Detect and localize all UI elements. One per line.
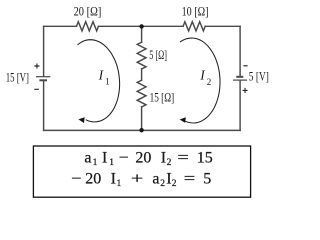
battery 15V long plate (+ terminal) (36, 76, 50, 78)
resistor 10Ω (top right) (183, 22, 205, 31)
mesh current I2 arrow (clockwise tilted elliptical arc) (180, 38, 220, 123)
resistor 5Ω (center branch upper) (137, 42, 146, 69)
mesh current I1 arrow (clockwise tilted elliptical arc) (78, 40, 120, 122)
wire right rail upper (down to battery 5V) (239, 26, 241, 76)
wire bottom rail (44, 129, 241, 131)
resistor 15Ω (center branch lower) (137, 80, 146, 107)
wire left rail upper (down to battery 15V) (43, 26, 45, 76)
wire center branch lower (15Ω to bottom node) (141, 107, 143, 130)
equation box frame (33, 146, 250, 197)
svg-text:15: 15 (197, 149, 213, 166)
svg-text:+: + (131, 170, 143, 187)
svg-text:I: I (102, 149, 107, 166)
svg-text:5 [V]: 5 [V] (249, 69, 269, 84)
svg-text:1: 1 (109, 158, 114, 168)
svg-text:20 [Ω]: 20 [Ω] (74, 4, 102, 19)
svg-text:I: I (199, 68, 206, 83)
wire center branch middle (5Ω to 15Ω) (141, 69, 143, 80)
svg-text:10 [Ω]: 10 [Ω] (182, 4, 209, 19)
svg-text:20: 20 (135, 149, 151, 166)
equation 2: −20·I1 + a2·I2 = 5 (71, 170, 211, 189)
wire left rail lower (battery 15V to bottom rail) (43, 81, 45, 130)
svg-text:I: I (166, 170, 171, 187)
wire top-right (10Ω to right rail) (205, 25, 240, 27)
battery 5V short plate (− terminal) (236, 76, 243, 78)
svg-text:−: − (71, 170, 81, 187)
svg-text:−: − (119, 149, 129, 166)
battery 5V polarity "−" (243, 65, 247, 67)
svg-text:2: 2 (207, 77, 212, 87)
svg-text:a: a (84, 149, 91, 166)
svg-text:2: 2 (160, 179, 165, 189)
battery 15V polarity "+" (34, 63, 39, 68)
svg-text:I: I (111, 170, 116, 187)
svg-text:5: 5 (203, 170, 211, 187)
svg-text:1: 1 (117, 179, 122, 189)
svg-text:1: 1 (93, 158, 98, 168)
svg-text:2: 2 (172, 179, 177, 189)
wire top-middle (20Ω to center node) (99, 25, 142, 27)
mesh current I1 arrowhead (78, 117, 84, 123)
wire top-middle-right (center node to 10Ω) (142, 25, 184, 27)
equation 1: a1·I1 − 20·I2 = 15 (84, 149, 212, 168)
svg-text:2: 2 (167, 158, 172, 168)
wire right rail lower (battery 5V to bottom rail) (239, 81, 241, 131)
node: bottom center junction (139, 128, 143, 132)
svg-text:15 [V]: 15 [V] (6, 70, 29, 85)
svg-text:I: I (161, 149, 166, 166)
svg-text:a: a (152, 170, 159, 187)
svg-text:=: = (177, 149, 188, 166)
battery 5V polarity "+" (243, 88, 248, 93)
svg-text:15 [Ω]: 15 [Ω] (150, 90, 175, 105)
mesh current I2 arrowhead (180, 117, 186, 123)
svg-text:I: I (98, 68, 105, 83)
battery 5V long plate (+ terminal) (233, 79, 247, 81)
wire center branch upper (top node to 5Ω) (141, 26, 143, 42)
node: top center junction (139, 24, 143, 28)
svg-text:5 [Ω]: 5 [Ω] (149, 47, 167, 62)
svg-text:20: 20 (85, 170, 101, 187)
svg-text:=: = (184, 170, 195, 187)
battery 15V polarity "−" (34, 88, 39, 90)
wire top-left (left rail to 20Ω) (44, 25, 77, 27)
svg-text:1: 1 (105, 76, 110, 86)
resistor 20Ω (top left) (77, 22, 99, 31)
battery 15V short plate (− terminal) (39, 79, 47, 81)
